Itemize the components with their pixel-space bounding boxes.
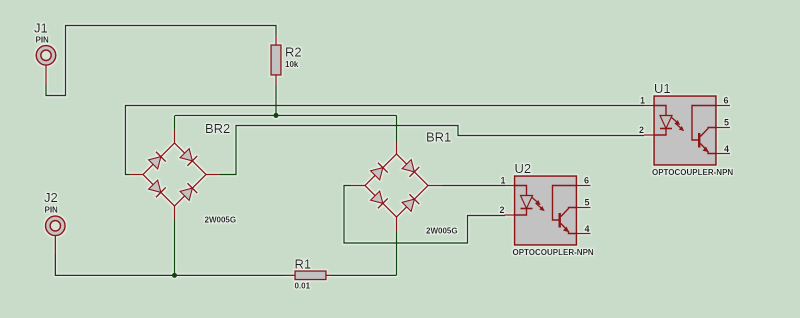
U1 pin 4 stub (716, 153, 730, 155)
U2 pin 4 stub (577, 233, 591, 235)
diode BR1 bottom-right (402, 194, 419, 211)
svg-text:R2: R2 (285, 45, 302, 60)
svg-text:U2: U2 (515, 161, 532, 176)
U2 pin 2 stub (505, 214, 515, 216)
optocoupler U2 body (515, 176, 577, 245)
svg-text:2W005G: 2W005G (426, 227, 458, 236)
svg-text:0.01: 0.01 (295, 282, 311, 291)
U1 internal LED (654, 106, 672, 136)
connector J2 (46, 216, 66, 236)
wire BR1 bottom to bus (396, 231, 398, 275)
svg-text:PIN: PIN (45, 206, 59, 215)
diode BR2 bottom-left (149, 180, 166, 197)
svg-text:R1: R1 (295, 257, 312, 272)
U1 pin 5 stub (716, 127, 730, 129)
U1 light arrows (671, 117, 684, 131)
svg-text:J2: J2 (44, 190, 58, 205)
svg-text:BR1: BR1 (426, 130, 451, 145)
U2 pin 6 stub (577, 185, 591, 187)
U2 light arrows (532, 197, 545, 211)
svg-text:6: 6 (724, 96, 729, 106)
BR1 right lead (428, 185, 442, 187)
U1 pin 6 stub (716, 105, 730, 107)
diode BR2 top-right (180, 149, 197, 166)
U1 pin 2 stub (644, 134, 654, 136)
svg-text:1: 1 (501, 176, 506, 186)
connector J1 (36, 46, 56, 66)
svg-text:OPTOCOUPLER-NPN: OPTOCOUPLER-NPN (652, 168, 733, 177)
svg-text:1: 1 (640, 96, 645, 106)
BR2 bottom lead (174, 206, 176, 220)
BR1 left lead (351, 185, 365, 187)
svg-text:2: 2 (639, 125, 644, 135)
diode BR1 bottom-left (371, 191, 388, 208)
wire J2 to R1 left (55, 254, 285, 275)
U2 pin 1 stub (505, 185, 515, 187)
J2 pin leg (54, 236, 56, 254)
BR2 right lead (206, 174, 220, 176)
svg-text:5: 5 (724, 118, 729, 128)
optocoupler U1 body (654, 96, 716, 165)
wire BR2 left to U1 pin 1 (125, 106, 644, 175)
svg-text:4: 4 (724, 144, 729, 154)
U2 pin 5 stub (577, 207, 591, 209)
wire BR1 right to U2 pin 1 (442, 185, 505, 187)
svg-text:2W005G: 2W005G (205, 216, 237, 225)
junction on ground bus (172, 273, 177, 278)
wire BR1 left to U2 pin 2 (344, 186, 505, 244)
BR2 top lead (174, 129, 176, 143)
svg-text:6: 6 (584, 176, 589, 186)
wire BR2 top to BR1 top (175, 114, 397, 116)
diode BR1 top-right (402, 160, 419, 177)
svg-text:4: 4 (585, 224, 590, 234)
diode BR2 bottom-right (180, 183, 197, 200)
diode BR1 top-left (371, 163, 388, 180)
U1 phototransistor (692, 106, 716, 154)
svg-text:PIN: PIN (36, 36, 50, 45)
svg-text:BR2: BR2 (205, 121, 230, 136)
bridge rectifier BR2 body (143, 143, 206, 206)
svg-text:U1: U1 (654, 81, 671, 96)
resistor R1 (285, 271, 332, 280)
wire R2 bottom (275, 86, 277, 116)
diode BR2 top-left (149, 152, 166, 169)
wire BR2 bottom to bus (174, 220, 176, 275)
U2 internal LED (515, 186, 533, 216)
BR2 left lead (129, 174, 143, 176)
wire BR1 top stub (396, 115, 398, 141)
svg-text:OPTOCOUPLER-NPN: OPTOCOUPLER-NPN (513, 248, 594, 257)
svg-text:2: 2 (500, 205, 505, 215)
J1 pin leg (45, 65, 47, 85)
U2 phototransistor (553, 186, 577, 234)
BR1 bottom lead (396, 217, 398, 231)
U1 pin 1 stub (644, 105, 654, 107)
wire BR2 right to U1 pin 2 (220, 126, 644, 175)
bridge rectifier BR1 body (365, 154, 428, 217)
resistor R2 (271, 35, 281, 86)
wire BR2 top stub (174, 115, 176, 129)
svg-text:J1: J1 (34, 21, 48, 36)
svg-text:5: 5 (585, 198, 590, 208)
BR1 top lead (396, 141, 398, 154)
junction at R2/BR2-BR1 line (273, 113, 278, 118)
wire J1 to R2 top (46, 26, 276, 96)
svg-text:10k: 10k (285, 60, 299, 69)
wire R1 right to BR1 bottom (332, 274, 397, 276)
